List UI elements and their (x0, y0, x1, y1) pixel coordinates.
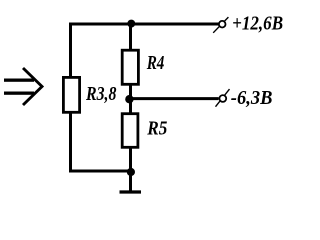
wire left vertical lower (69, 113, 72, 173)
wire mid node to R5 top (129, 99, 132, 114)
wire R5 bottom to bottom node (129, 148, 132, 174)
resistor R4 (122, 50, 164, 84)
ground (120, 190, 142, 193)
wire left vertical upper (69, 23, 72, 78)
svg-text:R4: R4 (146, 52, 164, 74)
wire ground stem (129, 172, 132, 191)
wire middle horizontal (126, 97, 219, 100)
node mid junction (125, 95, 133, 103)
wire R4 bottom to mid node (129, 85, 132, 100)
node top junction (127, 20, 135, 28)
terminal +12,6V (213, 13, 283, 35)
wire top horizontal (69, 23, 218, 26)
terminal -6,3V (216, 87, 273, 109)
input arrow (4, 68, 42, 105)
node bottom junction (127, 168, 135, 176)
svg-text:+12,6В: +12,6В (232, 13, 283, 35)
resistor R5 (122, 114, 167, 148)
wire middle branch top (129, 23, 132, 51)
resistor R3,8 (63, 77, 116, 112)
svg-text:R3,8: R3,8 (85, 83, 116, 105)
wire bottom horizontal (69, 170, 131, 173)
svg-text:R5: R5 (146, 118, 167, 140)
svg-text:-6,3В: -6,3В (231, 87, 273, 109)
